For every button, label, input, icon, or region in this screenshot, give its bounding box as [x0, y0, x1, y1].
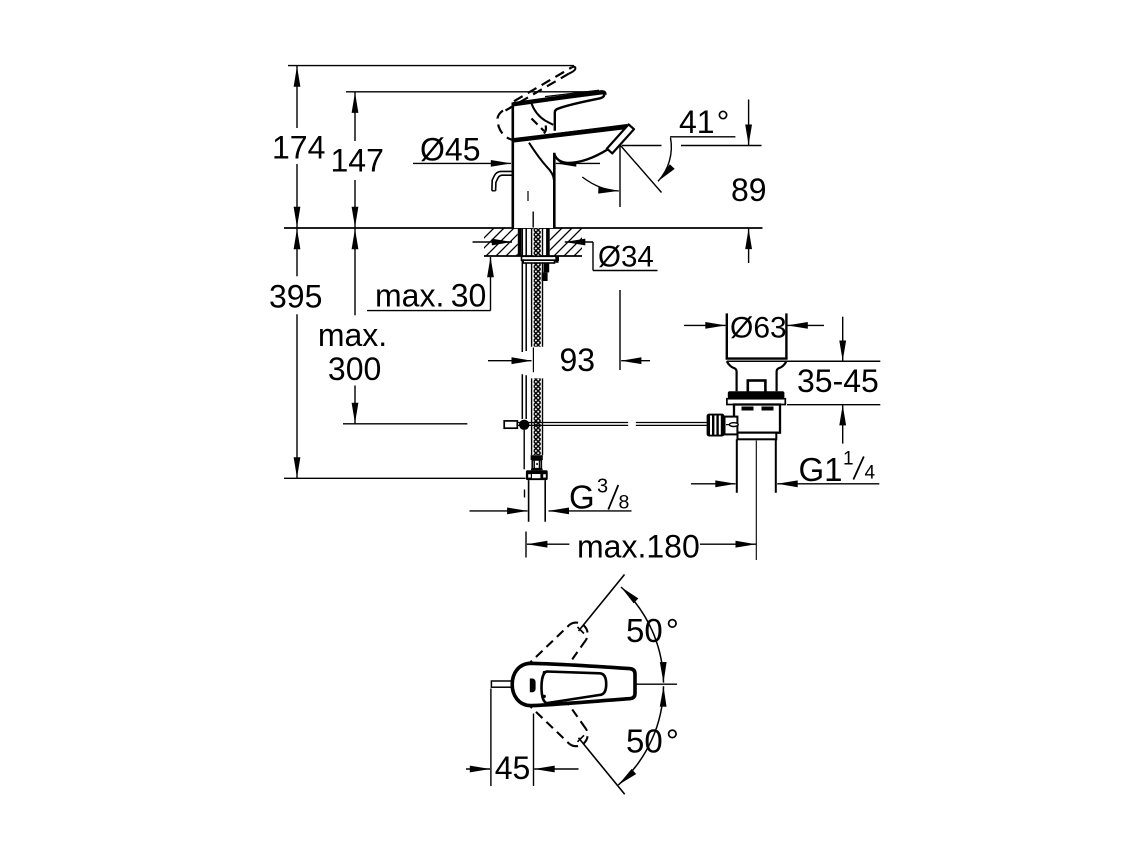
rod pin detail	[729, 423, 738, 427]
tick line (147)	[346, 91, 604, 93]
drain neck	[727, 361, 737, 391]
drain tailpipe	[737, 439, 776, 492]
braided hose lower	[532, 378, 543, 455]
handle dots	[543, 671, 546, 674]
handle inner outline	[542, 672, 607, 704]
dim line 174	[296, 66, 298, 128]
arrows 147	[352, 92, 359, 113]
shank right wall	[546, 228, 550, 256]
diagonal ray (aerator plane)	[621, 146, 662, 193]
tick line bottom of 395	[284, 477, 526, 479]
45 dim right ref line	[533, 714, 535, 787]
dashed lever tip beak	[569, 67, 576, 74]
45 dim left ref line	[490, 689, 492, 787]
svg-text:50°: 50°	[626, 612, 679, 649]
svg-text:G: G	[569, 478, 595, 515]
handle black mark	[530, 679, 536, 693]
arrows max300	[352, 229, 359, 250]
35-45 bottom tick	[787, 404, 880, 406]
centerline through 93 row	[532, 348, 534, 373]
mounting nut	[523, 260, 554, 263]
drain slots	[742, 407, 754, 411]
shank step block 1	[544, 263, 550, 273]
centerline dash near counter	[532, 212, 534, 228]
lever outline	[555, 95, 605, 131]
dashed handle rotated down 50	[526, 702, 588, 746]
upper 50deg diagonal	[579, 575, 625, 632]
handle outer outline	[512, 663, 635, 705]
svg-text:max.: max.	[318, 317, 387, 353]
arrows 174	[294, 66, 301, 87]
horizontal 0deg line	[636, 683, 677, 685]
horizontal ray from aerator	[622, 145, 662, 147]
upper 50deg arc	[621, 587, 664, 683]
lower 50deg arc	[618, 686, 663, 785]
counter bottom line	[484, 255, 582, 257]
rod centerline dash	[524, 490, 526, 498]
counter top line	[284, 227, 763, 229]
dashed lever inner dashes	[532, 119, 547, 137]
spout top thin highlight	[540, 125, 627, 136]
35-45 dim line	[842, 317, 844, 362]
washer right heavy edge	[555, 256, 558, 263]
svg-text:41°: 41°	[679, 104, 729, 140]
lever top edge thick	[513, 92, 605, 104]
clevis on drain	[725, 417, 738, 435]
spout underside	[554, 150, 607, 163]
dim line max300	[354, 228, 356, 315]
lower 50deg diagonal	[579, 738, 625, 795]
O63 arrows	[684, 324, 726, 326]
svg-text:395: 395	[269, 279, 322, 315]
svg-text:4: 4	[865, 463, 876, 484]
hose collar	[532, 460, 541, 469]
vertical ref line at spout outlet lower	[619, 290, 621, 370]
drain body	[734, 405, 780, 433]
svg-text:147: 147	[331, 142, 384, 178]
dashed handle rotated up 50	[526, 623, 588, 667]
svg-text:35-45: 35-45	[797, 363, 879, 399]
tick line bottom of max300	[343, 423, 467, 425]
horizontal pop-up rod	[517, 423, 706, 426]
body right edge	[553, 153, 556, 228]
tick line 89 top / angle reference	[681, 145, 762, 147]
svg-text:3: 3	[597, 475, 608, 497]
pop-up lift knob	[492, 171, 512, 190]
ball joint	[519, 420, 529, 430]
svg-text:max. 30: max. 30	[375, 278, 486, 314]
hose ferrule	[531, 455, 543, 460]
41deg arc	[658, 138, 671, 182]
lever top thin highlight	[545, 90, 599, 96]
body left edge	[511, 103, 514, 229]
41deg underline	[670, 136, 735, 138]
svg-text:G1: G1	[799, 451, 843, 488]
dashed raised lever	[498, 68, 572, 141]
svg-text:89: 89	[731, 172, 767, 208]
tick line top (174)	[288, 65, 574, 67]
pop-up rod right line	[525, 228, 527, 419]
rod below ball	[523, 430, 525, 469]
dim line 147	[354, 92, 356, 141]
faucet solid silhouette	[513, 92, 634, 228]
drain collar	[738, 433, 777, 440]
G3/8 nut	[526, 470, 548, 480]
shank step block 2	[542, 272, 548, 281]
spray arc	[582, 177, 619, 191]
left tick (rod centerline)	[525, 532, 527, 558]
G3/8 dimension arrows	[470, 510, 528, 512]
svg-text:174: 174	[272, 130, 325, 166]
connector flare	[531, 469, 543, 471]
svg-text:1: 1	[843, 449, 854, 470]
dim line 395	[296, 228, 298, 276]
plug lifter knob	[748, 381, 766, 394]
svg-text:8: 8	[619, 491, 630, 513]
knurled nut on rod	[707, 414, 725, 437]
flange washer	[727, 399, 785, 405]
drain centerline	[755, 441, 757, 561]
right side O45 arrow	[556, 162, 600, 164]
svg-text:50°: 50°	[626, 723, 679, 760]
svg-text:93: 93	[560, 342, 596, 378]
spout top edge thick	[513, 126, 631, 140]
svg-text:Ø34: Ø34	[598, 241, 654, 274]
braided hose upper	[532, 228, 543, 347]
shank left wall	[518, 228, 522, 256]
mounting washer	[522, 256, 559, 260]
45 dim arrows	[466, 768, 490, 770]
svg-text:Ø45: Ø45	[420, 132, 480, 168]
aerator	[607, 124, 634, 153]
body crease arc	[529, 143, 554, 180]
svg-text:Ø63: Ø63	[730, 311, 787, 344]
G3/8 thread tube	[529, 480, 546, 522]
drain top cylinder	[726, 313, 728, 358]
svg-text:max.180: max.180	[577, 529, 700, 565]
lever crease arc	[532, 104, 554, 125]
rod line inside body	[527, 191, 529, 201]
lever pin	[491, 681, 513, 687]
G1 1/4 dimension	[691, 483, 736, 485]
ball joint clevis	[504, 421, 517, 428]
svg-text:300: 300	[328, 351, 381, 387]
arrows 395	[294, 229, 301, 250]
svg-text:45: 45	[495, 750, 531, 786]
flange gasket	[728, 391, 785, 398]
vertical ref line at spout outlet upper	[619, 146, 621, 207]
pop-up rod left line	[521, 228, 523, 419]
cylinder lower edge / 35-45 top tick	[727, 360, 881, 362]
